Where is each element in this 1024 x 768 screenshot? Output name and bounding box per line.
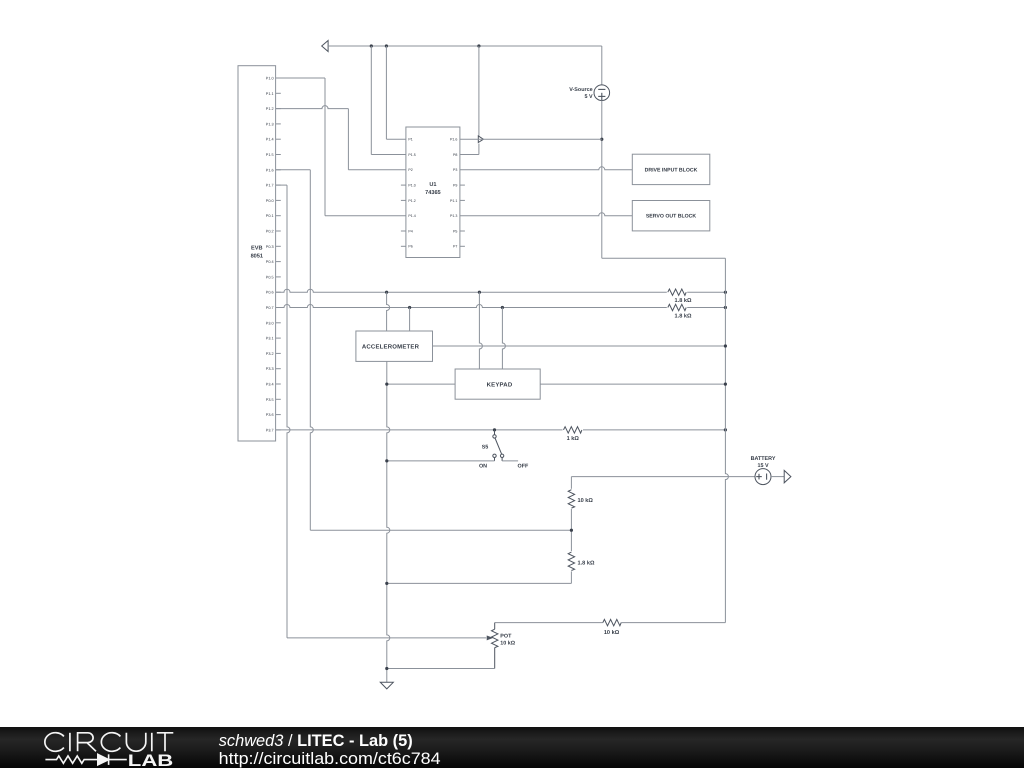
junction on top rail at x=371 (370, 44, 373, 47)
svg-text:P3.0: P3.0 (266, 321, 274, 325)
EVB pin P0.0 (276, 199, 281, 201)
svg-text:P1.6: P1.6 (266, 168, 274, 172)
svg-text:5 V: 5 V (585, 94, 593, 100)
wire: vertical x=348 P1.2 net down (347, 109, 349, 170)
POT wiper arrowhead (487, 636, 492, 640)
svg-text:SERVO OUT BLOCK: SERVO OUT BLOCK (646, 214, 697, 220)
EVB pin P0.7 (276, 307, 281, 309)
wire: between 10k and 1.8k x=571 (570, 509, 572, 551)
svg-text:15 V: 15 V (757, 463, 768, 469)
wire: keypad pin up to P0.7 rail (hops accel line) (502, 308, 505, 370)
svg-text:P0.3: P0.3 (266, 245, 274, 249)
svg-text:schwed3 / LITEC - Lab (5): schwed3 / LITEC - Lab (5) (219, 732, 413, 750)
KEYPAD block (455, 369, 540, 399)
svg-text:BATTERY: BATTERY (751, 456, 776, 462)
svg-text:P0.1: P0.1 (266, 214, 274, 218)
wire: vertical x=386 from top rail down to U1 P1 row (385, 46, 387, 139)
wire: into U1 pin P1.5 (371, 154, 406, 156)
svg-text:KEYPAD: KEYPAD (487, 381, 513, 388)
net flag arrow (left) on top rail (322, 41, 328, 52)
svg-text:ACCELEROMETER: ACCELEROMETER (362, 343, 420, 350)
wire: y=623 10k to 5V bus corner (621, 622, 725, 624)
wire: V-source top lead (601, 46, 603, 85)
svg-text:P3.6: P3.6 (266, 413, 274, 417)
junction P0.6/keypad pin at (479,292) (478, 291, 481, 294)
junction P0.7/keypad pin at (502,307) (501, 306, 504, 309)
wire: P1.7 net right at y=638 to POT wiper (287, 637, 486, 639)
svg-text:74365: 74365 (425, 190, 441, 196)
CircuitLab logo word CIRCUIT (45, 733, 173, 752)
EVB pin P1.0 (276, 77, 281, 79)
svg-text:P0.2: P0.2 (266, 230, 274, 234)
wire: U1 P8 up to net arrow (478, 144, 480, 155)
svg-text:P9: P9 (453, 184, 457, 188)
EVB pin P3.1 (276, 337, 281, 339)
wire: vertical x=325 P1.0 net down (324, 78, 326, 216)
wire: U1 pin P1.6 output to 5V bus (460, 138, 602, 140)
wire: EVB P1.0 right (276, 77, 325, 79)
svg-text:P3.7: P3.7 (266, 428, 274, 432)
svg-text:P1.3: P1.3 (450, 214, 457, 218)
battery BATTERY 15V (755, 469, 771, 485)
junction switch ON wire / ground bus at (387,461) (385, 459, 388, 462)
junction P3.7 rail to 5V bus at (725,430) (724, 428, 727, 431)
wire: 5V bus vertical x=725 (hops battery line) (725, 258, 728, 622)
wire: EVB P0.7 rail y=307 (hops x=287,310,479) (276, 305, 667, 308)
svg-text:P0.5: P0.5 (266, 275, 274, 279)
net flag arrow (right) at x=479 y=139 (478, 136, 483, 143)
svg-text:1 kΩ: 1 kΩ (567, 435, 580, 442)
wire: into U1 pin P1 (386, 138, 406, 140)
svg-text:DRIVE INPUT BLOCK: DRIVE INPUT BLOCK (645, 167, 698, 173)
svg-text:S5: S5 (482, 444, 489, 450)
EVB pin P3.7 (276, 429, 281, 431)
CircuitLab logo resistor-diode graphic (45, 754, 126, 765)
wire: P0.6 rail after resistor R1 (687, 291, 725, 293)
wire: P3.7 rail after resistor R3 (583, 429, 725, 431)
wire: vertical x=287 P1.7 net down (hops P3.7 rail) (287, 185, 290, 638)
junction on top rail at x=386 (385, 44, 388, 47)
svg-text:P0.0: P0.0 (266, 199, 274, 203)
svg-text:P1.6: P1.6 (450, 138, 457, 142)
switch S5 (494, 430, 496, 435)
wire: y=623 POT top to 10k resistor (495, 622, 603, 624)
svg-text:P1.4: P1.4 (408, 214, 415, 218)
EVB pin P1.4 (276, 138, 281, 140)
wire: 5V bus corner right at y=258 (602, 257, 726, 259)
wire: switch ON to ground bus (387, 460, 495, 462)
wire: 5V bus vertical x=602 below source (601, 101, 603, 259)
junction on top rail at x=479 (477, 44, 480, 47)
svg-text:10 kΩ: 10 kΩ (500, 640, 515, 646)
svg-text:P1.0: P1.0 (408, 184, 415, 188)
wire: EVB P1.2 right (hops x=325) (276, 106, 349, 109)
wire: EVB P1.6 right (276, 169, 311, 171)
EVB pin P1.5 (276, 154, 281, 156)
svg-text:P3.5: P3.5 (266, 398, 274, 402)
wire: P0.7 rail after resistor R2 (687, 307, 725, 309)
svg-text:P3.3: P3.3 (266, 367, 274, 371)
EVB pin P0.1 (276, 215, 281, 217)
op-amp/buffer IC U1 74365 block (406, 127, 460, 258)
svg-text:10 kΩ: 10 kΩ (604, 629, 620, 636)
svg-text:P5: P5 (453, 229, 457, 233)
svg-text:1.8 kΩ: 1.8 kΩ (675, 313, 692, 320)
EVB pin P0.6 (276, 291, 281, 293)
wire: EVB P0.6 rail y=292 (hops x=287,x=310) (276, 289, 667, 292)
wire: U1 pin P8 right (460, 154, 479, 156)
wire: U1 pin P3 to DRIVE INPUT BLOCK (hops x=602) (460, 167, 632, 170)
svg-text:P4: P4 (408, 229, 412, 233)
svg-text:P3.1: P3.1 (266, 337, 274, 341)
resistor R1 1.8k on P0.6 rail (668, 289, 686, 295)
wire: U1 pin P1.3 to SERVO OUT BLOCK (hops x=602) (460, 213, 632, 216)
EVB pin P3.5 (276, 398, 281, 400)
svg-text:P1.2: P1.2 (408, 199, 415, 203)
svg-text:P8: P8 (453, 153, 457, 157)
svg-text:POT: POT (500, 633, 512, 639)
junction P0.6 rail to 5V bus at (725,292) (724, 291, 727, 294)
wire: keypad right pin to 5V bus (540, 383, 725, 385)
EVB pin P1.1 (276, 92, 281, 94)
wire: POT top lead (494, 623, 496, 630)
wire: POT bottom to ground bus y=668 (387, 668, 495, 670)
svg-text:P1.1: P1.1 (450, 199, 457, 203)
EVB pin P3.6 (276, 414, 281, 416)
svg-text:LAB: LAB (128, 752, 174, 768)
svg-text:http://circuitlab.com/ct6c784: http://circuitlab.com/ct6c784 (219, 749, 441, 768)
resistor R4 10k vertical (568, 490, 574, 508)
ACCELEROMETER block (356, 331, 433, 361)
junction keypad output to 5V bus at (725,384) (724, 383, 727, 386)
junction accelerometer output to 5V bus at (725,346) (724, 344, 727, 347)
EVB pin P3.2 (276, 352, 281, 354)
wire: vertical x=479 from top rail down to net arrow above U1 P1.6 row (478, 46, 480, 136)
junction POT bottom / ground bus at (387,668) (385, 667, 388, 670)
junction y=583 / ground bus at (387,583) (385, 582, 388, 585)
junction keypad/ground bus at (387,384) (385, 383, 388, 386)
wire: ground bus vertical x=387 (hops P3.7, y=530, wiper lines) (387, 361, 390, 682)
EVB pin P1.7 (276, 184, 281, 186)
svg-text:10 kΩ: 10 kΩ (578, 497, 594, 504)
EVB pin P3.4 (276, 383, 281, 385)
junction 5V bus / U1 P1.6 output at (602,139) (600, 138, 603, 141)
wire: EVB P1.7 right (276, 184, 287, 186)
wire: top rail y=46 from arrow to V-source corner (328, 45, 602, 47)
junction P0.7/accelerometer pin at (410,307) (408, 306, 411, 309)
wire: 10k resistor top lead x=571 (570, 477, 572, 489)
svg-text:1.8 kΩ: 1.8 kΩ (578, 559, 595, 566)
wire: battery line y=477 from 10k top to battery (571, 476, 755, 478)
junction P0.6/accelerometer pin at (387,292) (385, 291, 388, 294)
svg-text:P7: P7 (453, 245, 457, 249)
svg-text:P1.7: P1.7 (266, 184, 274, 188)
svg-text:P1.2: P1.2 (266, 107, 274, 111)
EVB pin P0.3 (276, 245, 281, 247)
svg-text:P1.3: P1.3 (266, 122, 274, 126)
SERVO OUT BLOCK (632, 201, 710, 231)
wire: POT bottom lead (494, 648, 496, 669)
svg-text:P0.7: P0.7 (266, 306, 274, 310)
junction P0.7 rail to 5V bus at (725,307) (724, 306, 727, 309)
wire: EVB P3.7 rail y=430 (276, 429, 563, 431)
junction P3.7 rail / switch S5 at (494,430) (493, 428, 496, 431)
svg-text:P3: P3 (453, 168, 457, 172)
svg-text:P1.4: P1.4 (266, 138, 274, 142)
svg-text:OFF: OFF (518, 463, 529, 469)
svg-text:P0.4: P0.4 (266, 260, 274, 264)
DRIVE INPUT BLOCK (632, 154, 710, 184)
wire: vertical x=310 P1.6 net down (hops P3.7 rail) (310, 170, 313, 530)
ground symbol (380, 682, 393, 689)
resistor R2 1.8k on P0.7 rail (668, 304, 686, 310)
wire: accelerometer pin up to P0.6 rail (hops P0.7) (387, 292, 390, 331)
svg-text:V-Source: V-Source (569, 87, 592, 93)
svg-text:P1.1: P1.1 (266, 92, 274, 96)
wire: keypad pin up to P0.6 rail (hops accel line) (479, 292, 482, 369)
EVB pin P1.6 (276, 169, 281, 171)
resistor R6 10k horizontal (603, 619, 621, 625)
svg-text:P1.5: P1.5 (408, 153, 415, 157)
svg-text:P1.0: P1.0 (266, 77, 274, 81)
POT resistor body (492, 629, 498, 647)
svg-text:1.8 kΩ: 1.8 kΩ (675, 297, 692, 304)
EVB pin P0.5 (276, 276, 281, 278)
net flag arrow (battery) (784, 470, 791, 482)
resistor R3 1k on P3.7 rail (564, 427, 582, 433)
svg-text:P3.4: P3.4 (266, 383, 274, 387)
resistor R5 1.8k vertical (568, 552, 574, 570)
EVB pin P1.2 (276, 108, 281, 110)
EVB pin P3.0 (276, 322, 281, 324)
svg-text:8051: 8051 (251, 253, 263, 259)
voltage source V-Source 5V (594, 85, 610, 101)
EVB 8051 block (238, 66, 276, 441)
svg-text:P2: P2 (408, 168, 412, 172)
svg-text:U1: U1 (429, 182, 436, 188)
wire: switch OFF stub (502, 460, 518, 462)
wire: 1.8k bottom lead x=571 (570, 571, 572, 583)
wire: accelerometer output right y=346 (433, 345, 726, 347)
EVB pin P0.2 (276, 230, 281, 232)
svg-text:ON: ON (479, 463, 487, 469)
wire: vertical x=371 from top rail down to U1 P1.5 row (370, 46, 372, 155)
wire: y=583 from 1.8k bottom to ground bus (387, 582, 572, 584)
junction x=571 y=530 (P1.6 net) (570, 529, 573, 532)
wire: keypad left pin to ground bus (387, 383, 455, 385)
wire: P1.0 net into U1 pin P1.4 row (325, 215, 406, 217)
svg-text:P3.2: P3.2 (266, 352, 274, 356)
wire: battery to net flag arrow (771, 476, 784, 478)
wire: accelerometer pin up to P0.7 rail (409, 308, 411, 332)
svg-text:P0.6: P0.6 (266, 291, 274, 295)
svg-text:P1: P1 (408, 138, 412, 142)
wire: P1.2 net into U1 pin P2 row (348, 169, 406, 171)
EVB pin P1.3 (276, 123, 281, 125)
svg-text:EVB: EVB (251, 245, 263, 251)
svg-text:P1.5: P1.5 (266, 153, 274, 157)
EVB pin P0.4 (276, 261, 281, 263)
wire: P1.6 net right at y=530 (310, 529, 571, 531)
EVB pin P3.3 (276, 368, 281, 370)
svg-text:P6: P6 (408, 245, 412, 249)
